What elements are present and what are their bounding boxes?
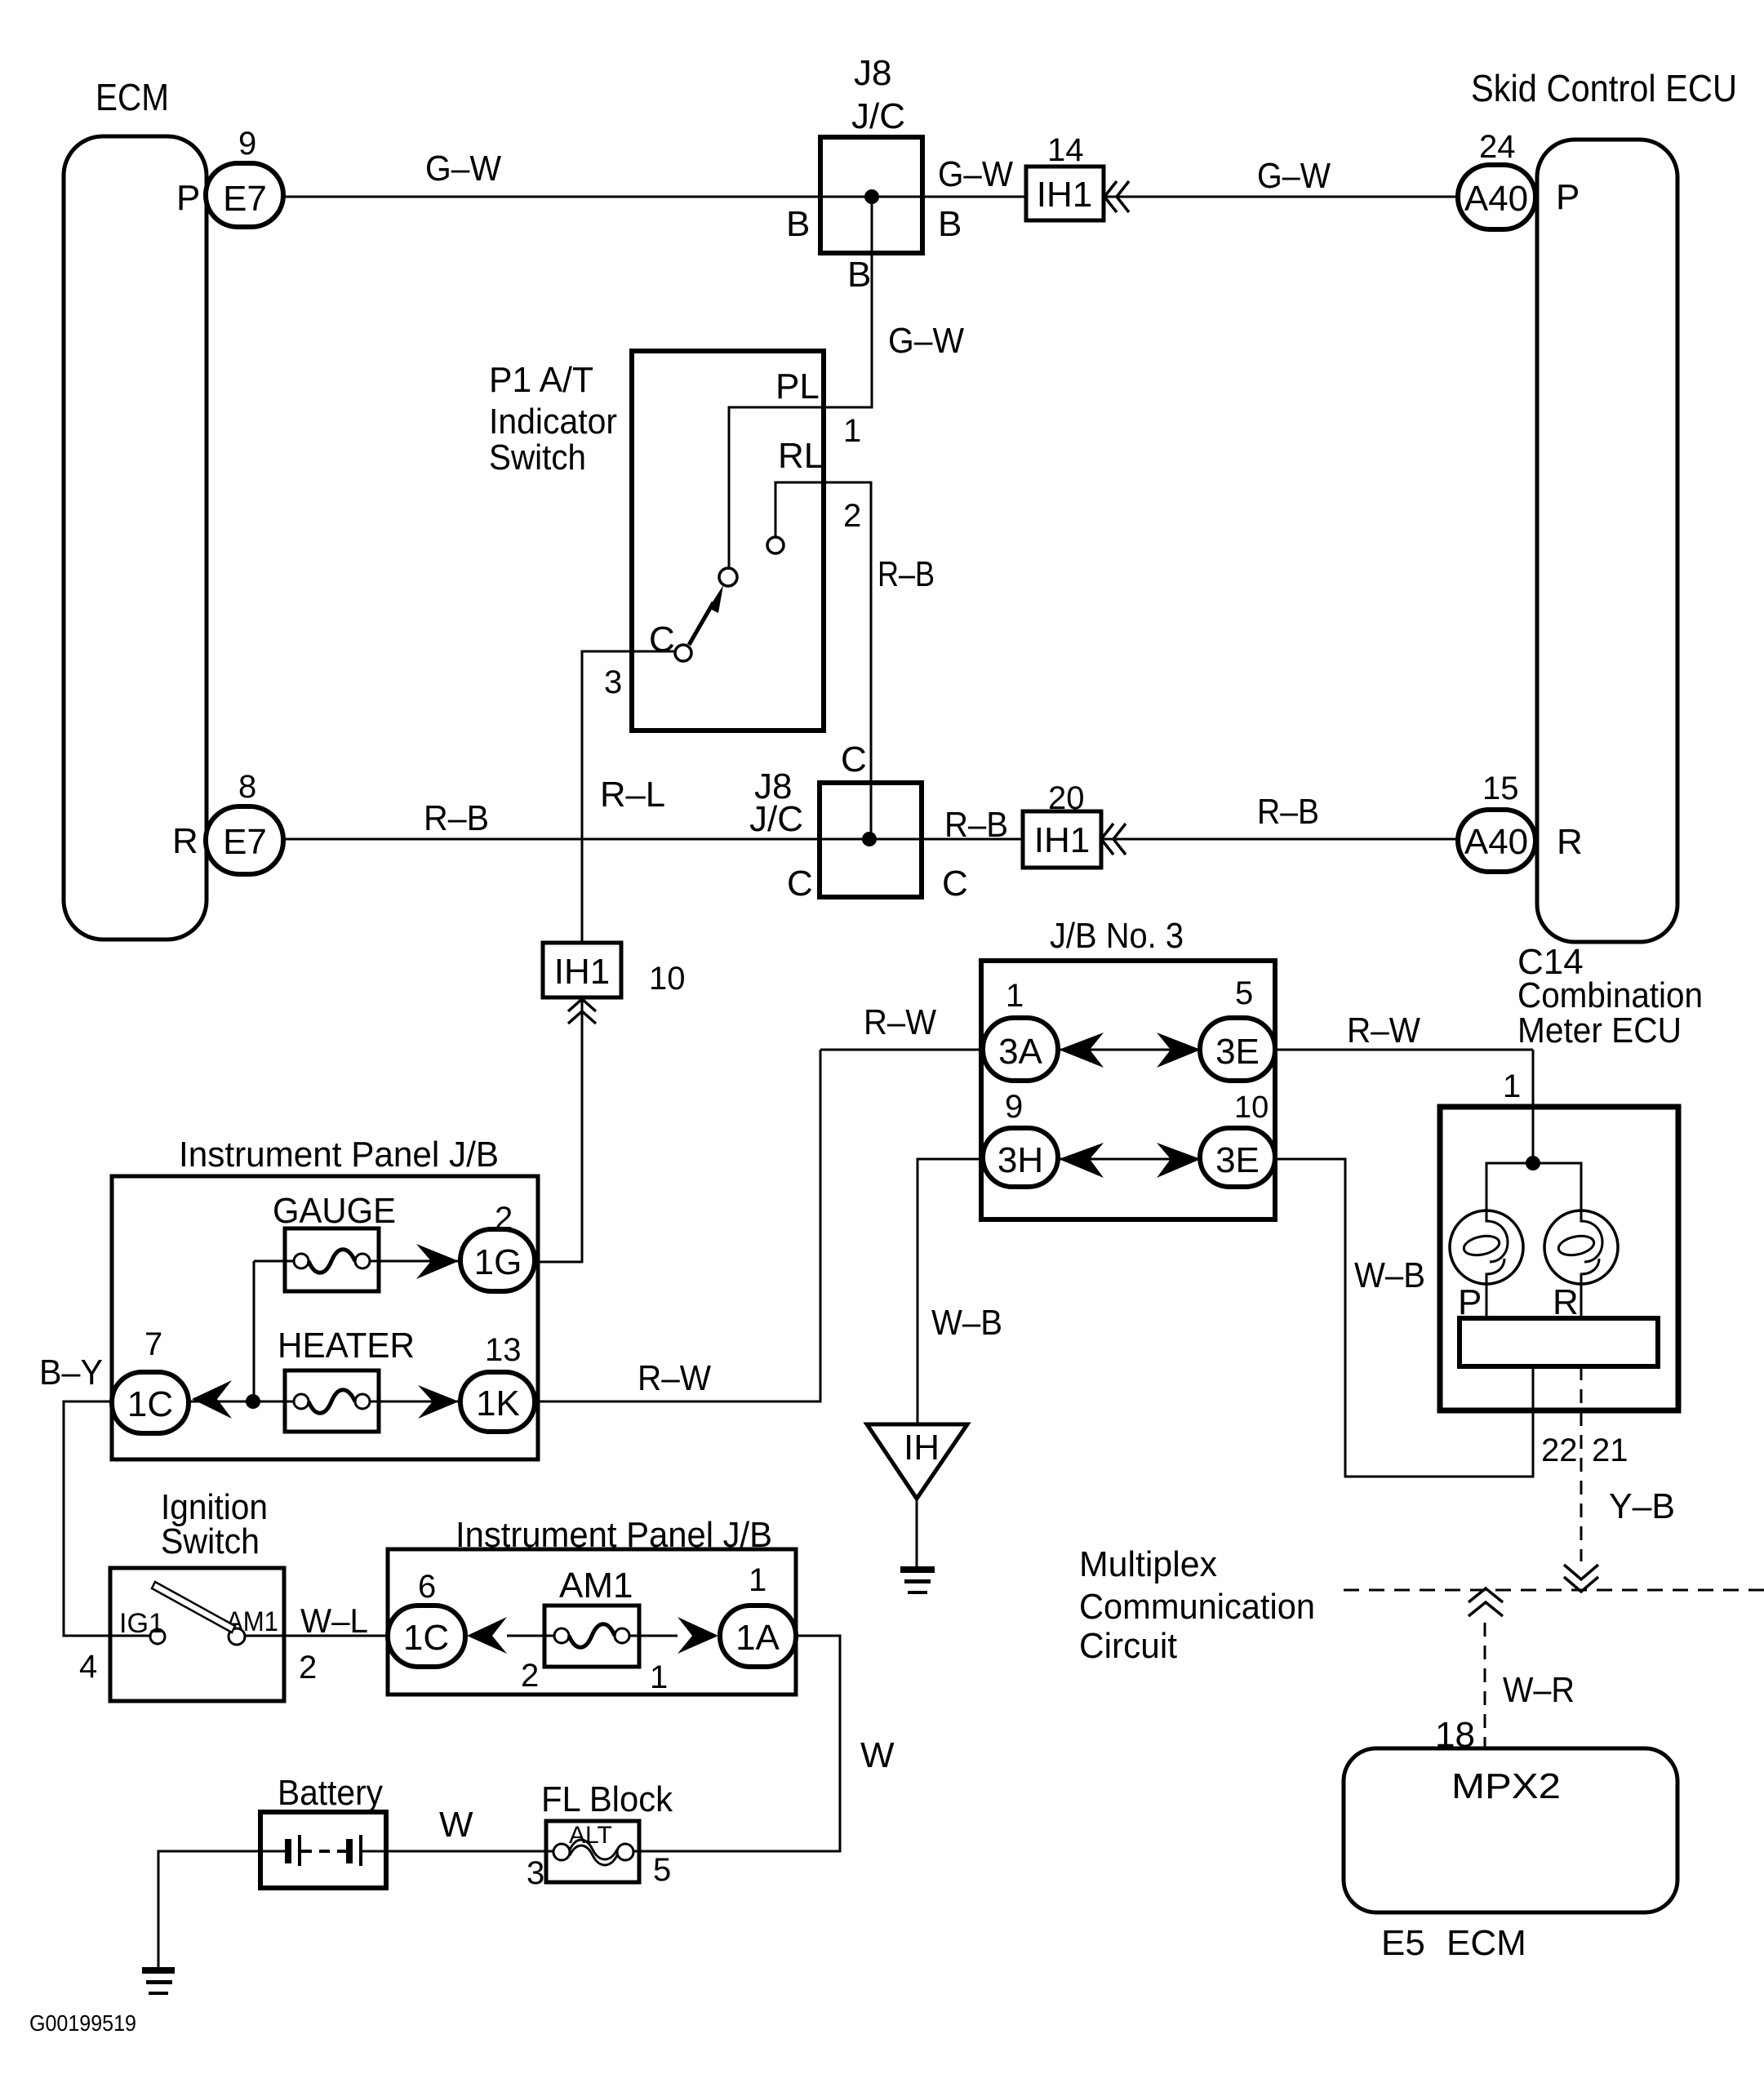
J/B No. 3 box (981, 916, 1275, 1219)
svg-text:Battery: Battery (278, 1773, 383, 1813)
svg-text:Skid Control ECU: Skid Control ECU (1471, 67, 1737, 109)
P1 switch lever arrow C to PL (689, 585, 723, 645)
svg-text:20: 20 (1048, 780, 1085, 816)
svg-text:7: 7 (144, 1326, 162, 1362)
wire W: J/B 1A pin 1 down to FL Block pin 5 (634, 1636, 840, 1851)
svg-text:IH1: IH1 (1037, 175, 1092, 215)
svg-text:R: R (172, 821, 198, 861)
wire to C14 pin 1 (1532, 1050, 1535, 1163)
svg-text:B–Y: B–Y (39, 1352, 103, 1392)
Skid Control ECU connector shell (1471, 67, 1737, 942)
svg-text:Instrument Panel J/B: Instrument Panel J/B (455, 1515, 772, 1555)
svg-text:J/B No. 3: J/B No. 3 (1050, 916, 1184, 956)
svg-text:R–W: R–W (638, 1358, 711, 1398)
svg-text:2: 2 (521, 1658, 539, 1694)
svg-text:B: B (847, 255, 871, 295)
svg-text:5: 5 (1235, 975, 1253, 1011)
connector IH1 (pin 20) (1023, 780, 1101, 868)
svg-text:ECM: ECM (96, 76, 169, 118)
svg-text:IH1: IH1 (1034, 820, 1090, 860)
svg-text:Y–B: Y–B (1609, 1486, 1675, 1526)
svg-text:G00199519: G00199519 (29, 2010, 136, 2036)
svg-text:1: 1 (1503, 1068, 1521, 1104)
svg-text:1: 1 (843, 413, 861, 449)
J8 J/C junction box (bottom) (749, 766, 922, 897)
chevrons left of IH1 pin20 wire (1101, 824, 1126, 855)
FL Block fuse box (541, 1779, 673, 1882)
svg-text:G–W: G–W (938, 154, 1013, 194)
svg-text:Multiplex: Multiplex (1079, 1544, 1217, 1584)
Battery box (260, 1773, 386, 1888)
svg-text:R–B: R–B (424, 798, 489, 838)
black arrow left out of lower 1C (467, 1617, 507, 1654)
svg-text:G–W: G–W (425, 149, 501, 189)
svg-text:1C: 1C (403, 1618, 449, 1658)
svg-text:W–B: W–B (931, 1303, 1002, 1343)
wire from GAUGE fuse down to 1C node (253, 1261, 255, 1401)
wire W-L: ignition AM1 pin 2 to lower J/B 1C pin 6 (244, 1635, 426, 1637)
svg-text:E5: E5 (1381, 1923, 1425, 1963)
svg-text:9: 9 (1005, 1089, 1023, 1125)
svg-text:B: B (938, 204, 962, 244)
J/B No.3 oval 3A (pin 1) (983, 978, 1058, 1081)
svg-text:1C: 1C (127, 1384, 173, 1424)
wire R-W: fuse 1K to J/B No.3 3A and across to 3E (498, 1050, 820, 1401)
connector pin A40 (Skid pin 15, R) (1458, 771, 1583, 872)
P1 A/T Indicator Switch box (489, 351, 824, 731)
ECM connector shell (64, 76, 207, 939)
svg-text:GAUGE: GAUGE (273, 1191, 396, 1231)
J8 J/C junction box (top) (820, 53, 922, 253)
svg-text:J/C: J/C (851, 96, 905, 136)
svg-text:2: 2 (843, 498, 861, 534)
chevrons up on W-R wire (1469, 1588, 1503, 1616)
svg-text:1: 1 (650, 1659, 668, 1695)
svg-text:HEATER: HEATER (278, 1326, 415, 1366)
wire: battery negative to ground (158, 1851, 286, 1967)
lamp bottom leads (1486, 1284, 1488, 1318)
connector pin E7 (ECM pin 8, R) (172, 769, 283, 874)
wire W-B: J/B No.3 3E to C14 pin 22 (1237, 1159, 1533, 1477)
wire B-Y: fuse 1C to ignition switch IG1 pin 4 (64, 1401, 150, 1636)
svg-text:8: 8 (238, 769, 256, 805)
svg-text:1: 1 (749, 1562, 766, 1598)
P1 switch contact PL (719, 568, 737, 586)
svg-text:22: 22 (1541, 1432, 1578, 1468)
P1 switch contact C (675, 645, 691, 661)
connector pin E7 (ECM pin 9, P) (176, 126, 283, 227)
Instrument Panel J/B box (lower) (388, 1515, 796, 1694)
svg-text:3: 3 (604, 664, 622, 700)
fuse HEATER (189, 1326, 460, 1432)
svg-text:IG1: IG1 (119, 1608, 164, 1639)
wire G-W: J8 junction down to P1 switch PL pin 1 (729, 197, 872, 571)
svg-text:J/C: J/C (749, 799, 803, 839)
black arrow left (bottom row J/B No.3) (1059, 1143, 1104, 1178)
J/B No.3 oval 3H (pin 9) (983, 1089, 1058, 1187)
svg-text:RL: RL (778, 436, 824, 476)
svg-text:Communication: Communication (1079, 1587, 1315, 1627)
svg-text:C: C (787, 864, 813, 904)
svg-text:IH1: IH1 (554, 952, 610, 992)
svg-text:5: 5 (653, 1852, 671, 1888)
svg-text:P: P (176, 178, 200, 218)
connector IH1 (pin 10) (543, 943, 686, 997)
svg-text:PL: PL (775, 366, 820, 406)
dashed wire Y-B: C14 pin 21 down to multiplex bus (1580, 1366, 1583, 1561)
svg-text:G–W: G–W (888, 321, 964, 361)
connector oval 1C (pin 7) (112, 1326, 189, 1433)
svg-text:C: C (841, 740, 867, 780)
svg-text:3A: 3A (998, 1032, 1042, 1072)
svg-text:1A: 1A (735, 1618, 780, 1658)
svg-text:C: C (649, 620, 675, 660)
Ignition Switch box (110, 1487, 284, 1701)
svg-text:21: 21 (1592, 1432, 1628, 1468)
svg-text:C: C (942, 864, 968, 904)
chevrons left of IH1 pin14 wire (1104, 181, 1129, 212)
svg-text:G–W: G–W (1257, 156, 1331, 196)
svg-text:18: 18 (1435, 1715, 1475, 1755)
IH ground triangle (867, 1424, 967, 1566)
svg-text:3E: 3E (1215, 1140, 1260, 1180)
wire R-L: P1 switch C pin 3 to IH1 connector and fuse 1G (537, 651, 678, 1262)
J/B No.3 oval 3E (pin 5) (1200, 975, 1275, 1081)
svg-text:Meter ECU: Meter ECU (1517, 1010, 1682, 1050)
connector oval 1K (pin 13) (460, 1332, 535, 1432)
black arrow right into 1A (678, 1617, 718, 1654)
svg-text:A40: A40 (1464, 822, 1528, 862)
svg-text:J8: J8 (854, 53, 891, 93)
svg-text:Switch: Switch (489, 437, 586, 477)
connector pin A40 (Skid pin 24, P) (1458, 129, 1580, 229)
P1 switch contact RL (767, 537, 784, 553)
black arrow left out of 1C (192, 1380, 232, 1419)
chevrons down on Y-B wire (1564, 1565, 1598, 1592)
battery cells (285, 1835, 362, 1866)
svg-text:6: 6 (418, 1569, 436, 1605)
C14 lamp R (1544, 1210, 1618, 1322)
wire R-B: P1 switch RL pin 2 down to J8 bottom junction (775, 482, 871, 839)
ignition switch lever (152, 1582, 235, 1632)
black arrow right into 1G (416, 1244, 459, 1279)
connector IH1 (pin 14) (1026, 132, 1104, 220)
svg-text:W–R: W–R (1503, 1670, 1575, 1710)
dashed multiplex communication bus line (1344, 1589, 1764, 1592)
connector oval 1G (pin 2) (460, 1201, 535, 1291)
FL Block ALT fusible link (527, 1822, 671, 1891)
svg-text:W: W (860, 1735, 895, 1775)
connector oval 1C lower (pin 6) (388, 1569, 465, 1667)
svg-text:4: 4 (79, 1649, 97, 1685)
black arrow right (bottom row J/B No.3) (1157, 1143, 1201, 1178)
svg-text:10: 10 (649, 961, 686, 997)
svg-text:1G: 1G (474, 1242, 522, 1282)
svg-text:2: 2 (299, 1650, 317, 1686)
svg-text:R–B: R–B (944, 805, 1008, 845)
wire W-B: J/B No.3 3H to IH ground triangle (918, 1159, 983, 1424)
svg-text:Indicator: Indicator (489, 402, 617, 442)
svg-text:1K: 1K (476, 1384, 520, 1424)
J/B No.3 oval 3E (pin 10) (1200, 1090, 1275, 1187)
svg-text:W–B: W–B (1354, 1255, 1425, 1295)
black arrow left (top row J/B No.3) (1059, 1033, 1104, 1068)
C14 Combination Meter ECU box (1440, 942, 1703, 1410)
svg-text:W: W (439, 1805, 473, 1845)
wire W: battery to FL Block pin 3 (362, 1850, 555, 1853)
svg-text:14: 14 (1047, 132, 1084, 168)
fuse AM1 (507, 1566, 678, 1695)
svg-text:15: 15 (1482, 771, 1519, 806)
svg-text:2: 2 (495, 1201, 513, 1237)
svg-text:24: 24 (1479, 129, 1516, 165)
svg-text:Switch: Switch (161, 1521, 260, 1561)
dashed wire W-R: MPX2 pin 18 up to multiplex bus (1484, 1623, 1486, 1748)
svg-text:10: 10 (1234, 1090, 1269, 1125)
chevrons up below IH1 pin10 (568, 999, 596, 1024)
svg-text:R–L: R–L (600, 775, 665, 815)
node junction dot before HEATER fuse (246, 1394, 260, 1409)
ignition switch contact IG1 (150, 1629, 165, 1644)
svg-text:IH: IH (904, 1428, 940, 1468)
svg-text:A40: A40 (1464, 179, 1528, 219)
svg-text:P1 A/T: P1 A/T (489, 360, 593, 400)
C14 lamp P (1450, 1210, 1523, 1322)
svg-text:B: B (786, 204, 810, 244)
wire G-W: ECM E7 pin 9 to Skid A40 pin 24 (top row) (245, 196, 1496, 198)
svg-text:AM1: AM1 (226, 1606, 278, 1637)
svg-text:R–B: R–B (1257, 792, 1319, 832)
black arrow right (top row J/B No.3) (1157, 1033, 1201, 1068)
svg-text:Combination: Combination (1517, 975, 1703, 1015)
svg-text:E7: E7 (223, 179, 267, 219)
svg-text:13: 13 (485, 1332, 522, 1368)
svg-text:Circuit: Circuit (1079, 1626, 1177, 1666)
svg-text:AM1: AM1 (559, 1566, 633, 1606)
fuse GAUGE (254, 1191, 460, 1291)
svg-text:R–B: R–B (878, 554, 935, 594)
svg-text:3E: 3E (1215, 1032, 1260, 1072)
C14 internal wiring: pin1 node to lamps (1486, 1163, 1581, 1210)
ignition switch contact AM1 (229, 1628, 245, 1645)
svg-text:W–L: W–L (300, 1601, 368, 1640)
svg-text:ECM: ECM (1446, 1923, 1526, 1963)
svg-text:3: 3 (527, 1855, 544, 1891)
node: J8 bottom junction dot (862, 832, 877, 846)
black arrow right into 1K (418, 1385, 459, 1419)
svg-text:R: R (1557, 822, 1583, 862)
svg-text:P: P (1556, 177, 1580, 217)
connector oval 1A (pin 1) (720, 1562, 796, 1667)
node: C14 pin 1 junction dot (1526, 1156, 1540, 1170)
svg-text:R–W: R–W (1347, 1010, 1420, 1050)
ground below IH triangle (900, 1566, 935, 1594)
svg-text:ALT: ALT (569, 1822, 612, 1849)
svg-text:MPX2: MPX2 (1451, 1766, 1561, 1806)
svg-text:FL Block: FL Block (541, 1779, 673, 1819)
Instrument Panel J/B box (upper) (112, 1135, 538, 1459)
node: J8 top junction dot (864, 189, 879, 204)
svg-text:3H: 3H (998, 1140, 1043, 1180)
svg-text:1: 1 (1006, 978, 1024, 1014)
ground below battery (142, 1967, 175, 1995)
svg-text:R–W: R–W (864, 1002, 936, 1042)
C14 internal block rectangle (1460, 1318, 1658, 1366)
svg-text:Instrument Panel J/B: Instrument Panel J/B (179, 1135, 499, 1175)
MPX2 ECM box (1344, 1748, 1677, 1963)
wire R-B: ECM E7 pin 8 to Skid A40 pin 15 (second row) (245, 838, 1496, 841)
svg-text:E7: E7 (223, 822, 267, 862)
svg-text:9: 9 (238, 126, 256, 162)
